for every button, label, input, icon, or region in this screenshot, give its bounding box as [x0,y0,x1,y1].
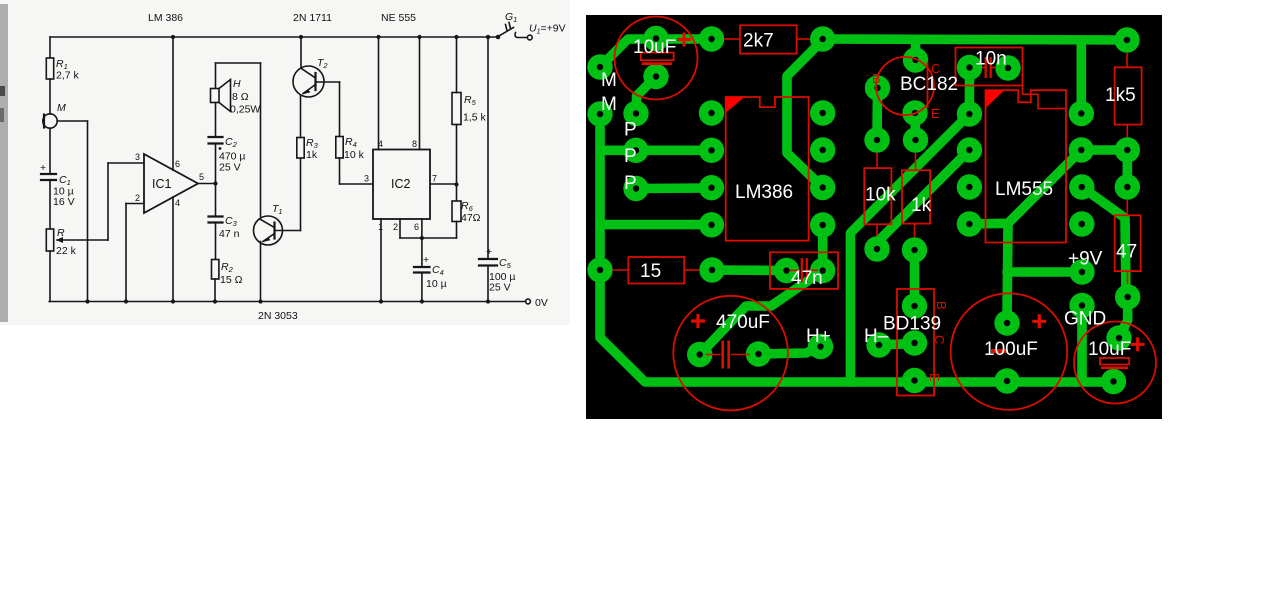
pad 100uF+ [994,310,1019,335]
speaker H [211,78,261,116]
wire speaker to C2 [215,103,217,137]
svg-text:R: R [57,227,65,239]
svg-text:+9V: +9V [1068,249,1103,270]
capacitor C5 [479,246,516,294]
wire speaker bracket [216,63,261,217]
switch G1 [486,11,532,40]
pad 47n left [774,258,799,283]
label BD139 [883,314,941,335]
pad 10uF+ top [643,26,668,51]
wire 470uF to H+ [759,347,821,355]
svg-text:2: 2 [393,222,398,232]
wire LM555 to ground via [850,114,969,382]
pad 1k top [903,127,928,152]
pad LM386 pin7 [810,137,835,162]
capacitor 10uF (left) silkscreen [615,17,698,100]
label NE 555 [381,12,416,24]
pad LM386 pin2 [699,138,724,163]
wire IC2 pin7 [430,182,459,186]
pad LM386 pin3 [699,175,724,200]
label +9V [1068,249,1103,270]
pad 100uF- [994,368,1019,393]
transistor T1 [254,203,283,245]
wire mic to C1 [49,128,51,173]
wire BC182 emitter to 1k [910,113,920,140]
wire LM555 pin1 to node [969,219,1008,229]
svg-text:E: E [931,106,940,121]
pad 10n left [957,55,982,80]
pad H- [866,332,891,357]
svg-text:47n: 47n [791,268,823,289]
wire 15 to 47n [712,265,787,275]
label U1=+9V [529,23,566,36]
wire R3 to T2 emitter [300,96,302,138]
svg-text:3: 3 [135,152,140,162]
svg-text:4: 4 [175,198,180,208]
svg-text:B: B [872,71,881,86]
pad P3 [623,176,648,201]
wire top bus left (10uF+ to 2k7) [600,39,712,67]
svg-text:BD139: BD139 [883,314,941,335]
pad 10k bottom [864,236,889,261]
svg-text:M: M [601,70,617,91]
svg-text:B: B [934,301,949,310]
svg-text:15: 15 [640,261,661,282]
svg-text:470uF: 470uF [716,312,770,333]
pad 10uF2 top [1106,325,1131,350]
capacitor 100uF silkscreen [951,293,1068,410]
svg-text:47 n: 47 n [219,228,240,240]
pad P1 [623,101,648,126]
pad LM386 pin8 [810,100,835,125]
svg-text:10n: 10n [975,49,1007,70]
wire wiper to IC1 pin3 [108,163,144,240]
pad LM555 pin5 [1069,211,1094,236]
wire P3 to LM386 pin3 [636,183,712,193]
wire mic tap down [57,121,89,304]
svg-text:10 k: 10 k [344,149,365,161]
pad LM555 pin3 [1069,174,1094,199]
op-amp IC1 [135,152,204,213]
capacitor 47n silkscreen [770,252,838,289]
svg-text:H: H [233,78,241,90]
pad 15 left [587,257,612,282]
label H+ [806,326,831,347]
wire bus drop to LM555 pin [1077,40,1087,114]
pad BD139 E [902,368,927,393]
resistor 15 silkscreen [612,257,700,284]
label 10uF right [1088,339,1131,360]
pad M1 [587,54,612,79]
capacitor 10n silkscreen [956,48,1023,86]
svg-text:2: 2 [135,193,140,203]
resistor R3 [297,137,319,161]
pad +9V [1069,259,1094,284]
svg-text:2N 3053: 2N 3053 [258,310,298,322]
wire C3 to R2 [215,223,217,260]
capacitor C2 [209,136,246,174]
pad BD139 B [902,293,927,318]
pad LM555 pin8 [1069,101,1094,126]
PCB board background [586,15,1162,419]
pad 2k7 left / LM386 pin1 [699,100,724,125]
pad 10k top [864,127,889,152]
capacitor 10uF (right) silkscreen [1074,322,1156,404]
svg-text:1,5 k: 1,5 k [463,112,487,124]
wire C5 column [486,35,490,258]
svg-text:0,25W: 0,25W [230,104,260,116]
wire C5 to ground [486,266,490,304]
transistor T2 [293,57,328,97]
svg-text:7: 7 [432,174,437,184]
svg-text:NE 555: NE 555 [381,12,416,24]
pad 47n right [810,258,835,283]
pad 470uF+ [687,342,712,367]
label 10n [975,49,1007,70]
wire R5 top to rail [454,35,458,93]
microphone M [43,102,66,128]
svg-text:0V: 0V [535,297,548,309]
label 1k [911,195,932,216]
svg-text:P: P [624,173,637,194]
pad 2k7 lead right [810,26,835,51]
svg-text:LM 386: LM 386 [148,12,183,24]
label GND [1064,309,1106,330]
pad 10uF- bottom [643,64,668,89]
svg-text:E: E [927,373,942,382]
label LM 386 [148,12,183,24]
svg-text:C: C [932,335,947,344]
wire C1 to potentiometer [49,180,51,229]
wire R5 bottom to pin7 node [456,125,458,202]
label 10uF left [633,37,676,58]
wire row2 P2 to LM386 [600,146,712,156]
wire 47 to 10uF+ [1119,297,1128,338]
resistor 1k5 silkscreen [1115,53,1142,137]
wire T1 emitter to ground [258,242,262,304]
wire R2 to ground [213,279,217,304]
wire LM555 internal to supply node [1008,150,1081,223]
svg-text:LM555: LM555 [995,179,1053,200]
svg-text:10k: 10k [865,185,896,206]
pad 15 right [699,257,724,282]
label 1k5 [1105,85,1136,106]
label M1 [601,70,617,91]
label 47 [1116,242,1137,263]
svg-text:U1=+9V: U1=+9V [529,23,566,36]
svg-text:1k: 1k [911,195,932,216]
label LM555 [995,179,1053,200]
svg-text:2,7 k: 2,7 k [56,70,80,82]
svg-text:16 V: 16 V [53,196,75,208]
wire T2 base to R4 [316,82,340,137]
resistor 47 silkscreen [1115,200,1141,284]
wire IC1 pin5 node [198,181,218,185]
wire LM555 pin to 1k5 [1081,150,1127,187]
pad 10uF2 bottom [1101,369,1126,394]
wire pot to bottom rail [49,251,51,302]
wire R1 to microphone [49,79,51,114]
svg-text:IC2: IC2 [391,177,411,191]
svg-text:2N 1711: 2N 1711 [293,12,332,24]
svg-text:10uF: 10uF [1088,339,1131,360]
potentiometer R 22k [46,227,108,257]
wire 2k7 into LM386 pin6 [787,40,823,188]
svg-text:IC1: IC1 [152,177,172,191]
svg-text:H+: H+ [806,326,831,347]
resistor R6 [452,200,481,224]
pad 47 top [1115,174,1140,199]
IC2 timer [364,139,437,232]
capacitor C4 [414,254,447,290]
wire IC1 pin2 [124,204,144,304]
resistor 1k silkscreen [902,153,930,237]
label P1 [624,120,637,141]
pad BC182 C [903,47,928,72]
label P3 [624,173,637,194]
capacitor C1 [40,162,75,208]
label 10k [865,185,896,206]
label H- [864,326,889,347]
pad corner top right [1114,27,1139,52]
svg-text:+: + [423,254,429,266]
resistor 2k7 silkscreen [724,25,810,53]
wire node to 100uF+ [1007,223,1008,323]
wire IC1 pin6 to rail [171,35,175,170]
pad LM555 pin6 [957,137,982,162]
svg-text:BC182: BC182 [900,74,958,95]
label 2N 1711 [293,12,332,24]
pad BD139 C [902,330,927,355]
svg-text:25 V: 25 V [489,282,511,294]
svg-text:5: 5 [199,172,204,182]
wire R6 bottom to pin2/6 node [422,222,457,239]
pad 1k bottom [902,237,927,262]
svg-text:2k7: 2k7 [743,31,774,52]
wire IC2 pin6 to C4 [421,219,423,266]
IC LM555 silkscreen [986,86,1067,243]
svg-text:8 Ω: 8 Ω [232,91,249,103]
resistor R2 [212,260,243,287]
label 2N 3053 [258,310,298,322]
wire bottom ground rail [49,297,548,309]
transistor BD139 silkscreen [897,289,949,396]
svg-text:1k5: 1k5 [1105,85,1136,106]
pad LM386 pin5 [810,212,835,237]
svg-text:LM386: LM386 [735,182,793,203]
wire BC182 base to 10k [872,88,882,140]
svg-text:GND: GND [1064,309,1106,330]
label LM386 [735,182,793,203]
wire 1k to BD139 base [910,250,920,306]
svg-text:6: 6 [414,222,419,232]
capacitor 470uF silkscreen [673,296,788,411]
wire 47n to 470uF+ [700,271,823,355]
wire C4 to ground [420,273,424,304]
svg-text:3: 3 [364,174,369,184]
wire LM555 pin to 47 resistor [1082,187,1126,297]
svg-text:15 Ω: 15 Ω [220,274,243,286]
wire GND pad to bus [1077,306,1087,383]
svg-text:P: P [624,146,637,167]
svg-text:+: + [486,246,492,258]
label 2k7 [743,31,774,52]
pad LM555 pin1 [957,211,982,236]
svg-text:6: 6 [175,159,180,169]
transistor BC182 silkscreen [872,57,940,121]
pad M2 [587,101,612,126]
svg-text:M: M [57,102,66,114]
IC LM386 silkscreen [726,97,809,241]
wire C2 to node [215,144,217,217]
wire 10n to LM555 pin [965,68,975,115]
svg-text:47: 47 [1116,242,1137,263]
pad LM386 pin4 [699,212,724,237]
svg-text:10uF: 10uF [633,37,676,58]
wire top bus right (2k7 to corner) [823,39,1127,40]
wire IC2 pin8 to rail [417,35,421,150]
wire left bus and bottom bus [600,114,1114,382]
svg-text:P: P [624,120,637,141]
wire IC2 pin2 [400,219,424,240]
label BC182 [900,74,958,95]
wire IC1 pin4 to ground [171,197,175,304]
pad 2k7 lead left [699,26,724,51]
svg-text:22 k: 22 k [56,245,77,257]
wire IC2 pin4 to rail [376,35,380,150]
svg-text:47Ω: 47Ω [461,212,481,224]
resistor R5 [452,93,487,125]
pad 470uF- [746,341,771,366]
pad 47 bottom [1115,284,1140,309]
label 47n [791,268,823,289]
svg-text:100uF: 100uF [984,339,1038,360]
pad LM386 pin6 [810,175,835,200]
pad P2 [623,138,648,163]
pad BC182 E [902,100,927,125]
wire top supply rail [50,36,497,38]
wire IC2 pin1 to ground [379,219,383,304]
wire node to +9V pad [1007,267,1082,277]
resistor 10k silkscreen [864,153,891,236]
resistor R1 [46,58,79,82]
pad LM555 pin4 [1069,137,1094,162]
pad 1k5 bottom [1115,137,1140,162]
wire bus to LM386 pin4 [600,220,712,230]
label 470uF [716,312,770,333]
pad LM555 pin2 [957,174,982,199]
pad 10n right [995,55,1020,80]
pad BC182 B [865,75,890,100]
wire R4 to IC2 pin3 [340,158,374,184]
svg-text:1k: 1k [306,149,318,161]
label P2 [624,146,637,167]
svg-text:10 µ: 10 µ [426,278,447,290]
pad LM555 pin7 [957,101,982,126]
svg-text:25 V: 25 V [219,162,241,174]
svg-text:+: + [40,162,46,174]
capacitor C3 [209,215,240,240]
label 100uF [984,339,1038,360]
label 15 [640,261,661,282]
svg-text:8: 8 [412,139,417,149]
label M2 [601,94,617,115]
schematic scan background [0,0,570,325]
svg-text:M: M [601,94,617,115]
resistor R4 [336,136,365,161]
wire T2 collector to rail [299,35,303,68]
pad GND [1069,293,1094,318]
wire T1 base to R3 [275,158,301,231]
wire LM555 to 10k [877,150,969,249]
wire left column top [49,37,51,58]
wire H- to BD139 [879,344,915,346]
pad H+ [808,334,833,359]
wire LM386 pin5 to 47n [818,225,828,271]
wire bus to BC182 collector [911,40,921,60]
wire 10uF- to P1 [637,77,657,114]
